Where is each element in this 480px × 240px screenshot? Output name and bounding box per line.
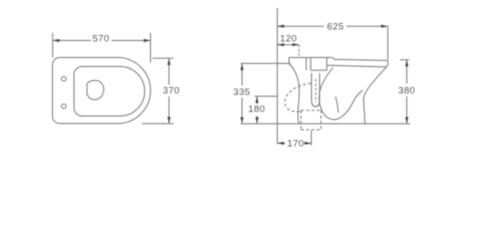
dim 335 line — [241, 63, 243, 123]
dim 570 extension line left — [52, 33, 54, 58]
svg-text:370: 370 — [163, 85, 180, 96]
hinge hole top — [62, 77, 67, 82]
seat inner outline (top view) — [74, 67, 145, 117]
cistern left edge — [288, 58, 290, 64]
floor line (side view) — [241, 123, 410, 125]
bowl front and pedestal — [364, 67, 387, 124]
svg-text:335: 335 — [233, 87, 250, 98]
dim 180 arrow bottom — [255, 117, 258, 124]
dim 120 extension line right — [298, 45, 300, 58]
dim 180 line — [256, 96, 258, 124]
cistern right edge — [326, 58, 328, 71]
dim 180 extension line top — [255, 95, 278, 97]
flush pipe bottom curl — [312, 101, 320, 107]
label 335 — [232, 86, 253, 98]
trap sweep curve — [319, 68, 362, 120]
svg-text:380: 380 — [398, 85, 415, 96]
svg-text:625: 625 — [327, 21, 344, 32]
seat underside — [327, 65, 387, 67]
pipe centerline dashed — [315, 79, 317, 103]
trap hole (top view) — [87, 80, 104, 99]
dim 370 extension line bottom — [142, 123, 174, 125]
flush pipe right line — [319, 73, 321, 101]
dim 120 line — [277, 44, 299, 46]
label 120 — [280, 34, 297, 45]
label 625 — [325, 21, 347, 33]
dim 380 arrow bottom — [405, 117, 408, 124]
dim 570 extension line right — [150, 33, 152, 63]
dim 380 extension line top — [400, 59, 410, 61]
seat lid step — [332, 58, 335, 60]
dim 370 arrow top — [167, 58, 170, 65]
trap inner wall line — [336, 97, 339, 113]
label 180 — [246, 104, 268, 115]
wall line (side view) — [276, 8, 278, 144]
dim 625 arrow left — [277, 25, 284, 28]
pan outer outline (top view) — [53, 58, 151, 124]
dim 335 extension line top — [241, 62, 291, 64]
dim 370 line — [168, 58, 170, 123]
label 170 — [287, 138, 304, 149]
dim 170 arrow right — [305, 142, 312, 145]
seat lid front tip — [386, 60, 388, 67]
svg-text:570: 570 — [92, 33, 109, 44]
dim 370 arrow bottom — [167, 117, 170, 124]
dim 370 extension line top — [153, 57, 174, 59]
hidden trap pipe dashed arc — [285, 83, 311, 111]
seat hinge bar — [306, 58, 311, 71]
pan back edge — [289, 64, 299, 124]
cistern bottom edge — [311, 69, 327, 71]
dim 625 arrow right — [381, 25, 388, 28]
dim 625 line — [277, 25, 388, 27]
dim 570 line — [53, 40, 151, 42]
dim 570 arrow left — [53, 39, 60, 42]
dim 570 arrow right — [144, 39, 151, 42]
seat lid top — [334, 59, 386, 60]
dim 120 arrow right — [292, 43, 299, 46]
label 380 — [397, 85, 418, 97]
dim 170 arrow left — [277, 142, 284, 145]
svg-text:170: 170 — [287, 138, 304, 149]
svg-text:120: 120 — [280, 34, 297, 45]
dim 120 arrow left — [277, 43, 284, 46]
label 570 — [91, 33, 112, 44]
svg-text:180: 180 — [248, 104, 265, 115]
dim 335 arrow top — [240, 63, 243, 70]
cistern lid top (side view) — [289, 57, 332, 59]
dim 170 line — [277, 142, 311, 144]
outlet dashed box — [301, 110, 321, 129]
dim 380 arrow top — [405, 60, 408, 67]
label 370 — [160, 85, 182, 96]
dim 335 arrow bottom — [240, 117, 243, 124]
dim 625 extension line right — [387, 26, 389, 60]
dim 180 arrow top — [255, 96, 258, 103]
dim 380 line — [406, 60, 408, 124]
flush pipe left line — [311, 73, 313, 101]
hinge hole bottom — [62, 104, 67, 109]
dim 170 extension line right — [310, 131, 312, 146]
